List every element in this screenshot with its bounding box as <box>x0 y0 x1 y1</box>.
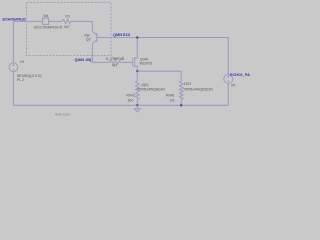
svg-text:4k7: 4k7 <box>64 25 70 29</box>
resistor R045 1M <box>179 76 183 105</box>
svg-text:T6R5U4WQ62E3N: T6R5U4WQ62E3N <box>183 87 213 91</box>
voltage source V3 <box>9 63 18 72</box>
junction <box>180 104 182 106</box>
wire <box>13 20 42 22</box>
wire <box>12 72 14 106</box>
resistor 4k7 <box>110 61 121 64</box>
svg-text:1M: 1M <box>170 98 175 102</box>
junction <box>136 104 138 106</box>
svg-text:4k7: 4k7 <box>112 63 118 67</box>
svg-text:R043: R043 <box>126 94 134 98</box>
wire <box>12 21 14 63</box>
component M4 (box) <box>43 18 49 25</box>
wire right vertical <box>227 38 229 75</box>
resistor R043 600 <box>136 71 140 105</box>
wire <box>49 20 62 22</box>
wire bottom <box>13 104 228 106</box>
ground <box>134 105 140 112</box>
svg-text:Auto Gen: Auto Gen <box>55 113 70 117</box>
transistor Q3 <box>92 32 100 44</box>
dashed box <box>27 3 112 56</box>
svg-text:R045: R045 <box>166 94 174 98</box>
svg-text:PL 2: PL 2 <box>17 78 24 82</box>
wire <box>91 21 93 31</box>
resistor D1 <box>62 20 71 24</box>
junction <box>136 70 138 72</box>
svg-text:M23V51: M23V51 <box>140 61 153 65</box>
svg-text:V5: V5 <box>231 83 235 87</box>
svg-text:(Q5): (Q5) <box>142 83 149 87</box>
wire <box>180 71 182 76</box>
svg-text:ECHO1_PAd: ECHO1_PAd <box>230 73 250 77</box>
wire source node <box>137 70 181 72</box>
wire <box>227 84 229 106</box>
svg-text:QMN E13: QMN E13 <box>113 32 131 37</box>
svg-text:V3: V3 <box>20 60 24 64</box>
svg-text:1320: 1320 <box>183 82 191 86</box>
svg-text:Q3M1 JN]: Q3M1 JN] <box>75 58 93 62</box>
svg-text:D1: D1 <box>66 14 71 18</box>
svg-text:600: 600 <box>128 98 134 102</box>
voltage source V5 <box>224 75 233 84</box>
wire <box>92 61 110 63</box>
svg-text:M4: M4 <box>44 14 49 18</box>
transistor M1 (nmos) <box>132 52 137 71</box>
svg-text:SENSQ(3.3 0): SENSQ(3.3 0) <box>17 73 43 78</box>
wire base net <box>100 37 228 39</box>
wire emitter <box>91 44 93 63</box>
svg-text:ECHO0(PAd1: ECHO0(PAd1 <box>3 17 26 21</box>
svg-text:BSC08MN6V5: BSC08MN6V5 <box>34 24 63 29</box>
wire drain up <box>136 38 138 53</box>
junction <box>136 37 138 39</box>
svg-text:n_internal: n_internal <box>106 56 124 61</box>
svg-text:Q3: Q3 <box>86 38 91 42</box>
wire <box>121 61 132 63</box>
wire <box>71 20 92 22</box>
svg-text:T6R5U4WQ6D3H: T6R5U4WQ6D3H <box>137 88 165 92</box>
